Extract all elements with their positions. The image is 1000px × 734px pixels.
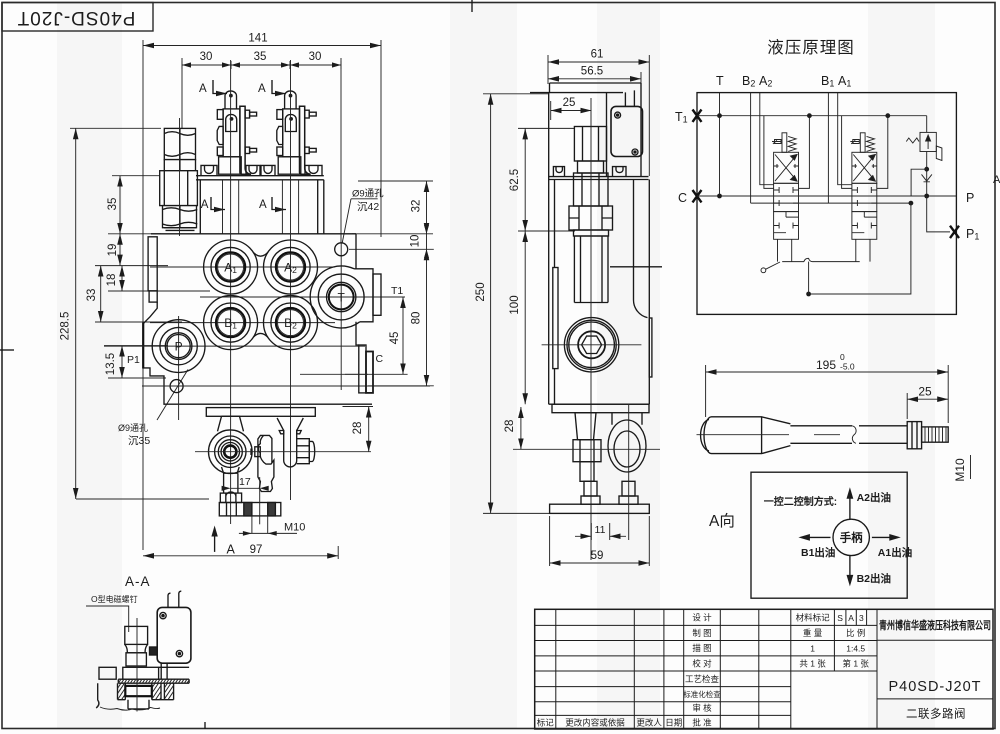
svg-text:56.5: 56.5 bbox=[581, 66, 603, 78]
svg-text:28: 28 bbox=[352, 422, 364, 435]
dimension 28 side bbox=[504, 407, 521, 449]
dimension 32 right bbox=[411, 181, 427, 234]
svg-text:一控二控制方式:: 一控二控制方式: bbox=[764, 495, 837, 508]
svg-text:S: S bbox=[837, 613, 843, 623]
svg-text:33: 33 bbox=[86, 289, 98, 302]
centerline P column bbox=[178, 316, 180, 420]
label M10 leader bbox=[239, 516, 306, 536]
dimension 18 left bbox=[106, 266, 122, 291]
bottom link riser bbox=[808, 262, 810, 294]
svg-text:25: 25 bbox=[918, 385, 932, 399]
valve2 solenoid flag bbox=[853, 140, 860, 144]
svg-text:重 量: 重 量 bbox=[803, 628, 823, 638]
link bolt hex front bbox=[297, 439, 315, 464]
label leader bbox=[86, 606, 129, 632]
junction dot below relief bbox=[924, 167, 929, 172]
svg-text:195: 195 bbox=[816, 358, 836, 372]
side micro switch bbox=[607, 90, 643, 176]
svg-text:青州博信华盛液压科技有限公司: 青州博信华盛液压科技有限公司 bbox=[879, 618, 991, 632]
junction dot secondary rail end bbox=[909, 201, 914, 206]
svg-text:Ø9通孔: Ø9通孔 bbox=[118, 423, 148, 433]
svg-text:59: 59 bbox=[591, 550, 604, 562]
T1 rail bbox=[697, 115, 927, 117]
svg-text:A: A bbox=[993, 174, 1000, 186]
bolt head cup 2 bbox=[246, 165, 260, 175]
section arrow A top right bbox=[258, 80, 286, 95]
svg-text:11: 11 bbox=[595, 524, 606, 536]
valve2 pilot rod bbox=[860, 133, 874, 153]
svg-text:T: T bbox=[716, 74, 724, 88]
side bolt post left bbox=[553, 167, 564, 177]
valve1 right bracket wire bbox=[799, 116, 810, 189]
valve body outline front bbox=[143, 234, 372, 404]
svg-text:P: P bbox=[175, 340, 183, 354]
svg-text:B2出油: B2出油 bbox=[857, 572, 891, 585]
side body top cap bbox=[530, 83, 641, 93]
dimension 28 front bbox=[343, 407, 374, 452]
mounting hole top right bbox=[335, 243, 348, 256]
arrow right bbox=[872, 536, 895, 538]
svg-text:批 准: 批 准 bbox=[692, 718, 712, 728]
svg-text:二联多路阀: 二联多路阀 bbox=[906, 707, 966, 721]
right part vertical rules bbox=[834, 609, 877, 729]
side linkage centerlines bbox=[513, 448, 660, 450]
link clevis fork front bbox=[277, 418, 303, 467]
TITLE BLOCK bbox=[535, 609, 993, 729]
control box frame bbox=[751, 472, 907, 598]
svg-text:100: 100 bbox=[509, 295, 521, 314]
svg-text:液压原理图: 液压原理图 bbox=[767, 38, 855, 57]
svg-text:10: 10 bbox=[410, 235, 422, 248]
side stud left bbox=[581, 481, 600, 504]
dimension 195-5.0 bbox=[706, 352, 949, 423]
svg-text:P40SD-J20T: P40SD-J20T bbox=[17, 7, 136, 28]
svg-text:97: 97 bbox=[250, 544, 263, 556]
section nut bold bbox=[125, 686, 152, 696]
SIDEVIEW bbox=[475, 49, 662, 567]
ball joint clevis front bbox=[209, 416, 253, 473]
svg-text:手柄: 手柄 bbox=[840, 531, 863, 545]
svg-text:设 计: 设 计 bbox=[692, 613, 712, 623]
svg-text:工艺检查: 工艺检查 bbox=[685, 674, 720, 684]
plug X at P1 bbox=[950, 226, 959, 238]
arrow up bbox=[849, 493, 851, 519]
ball joint stem front bbox=[220, 473, 241, 502]
leader hole top Ø9通孔 沉42 bbox=[342, 189, 384, 244]
section lower hatched walls bbox=[118, 683, 174, 700]
linkage pivot centerline bbox=[195, 451, 371, 453]
junction dot bottom bbox=[806, 292, 811, 297]
CONTROLBOX bbox=[709, 472, 912, 598]
relief valve fitting hex stack front bbox=[160, 128, 198, 230]
left raised block bbox=[99, 667, 116, 679]
svg-text:C: C bbox=[376, 353, 384, 365]
svg-text:30: 30 bbox=[309, 51, 322, 63]
dimension 59 bbox=[550, 516, 650, 566]
svg-text:A: A bbox=[201, 199, 209, 211]
bolt head cup 1 bbox=[201, 165, 217, 175]
arrow down bbox=[849, 556, 851, 581]
junction dot T1 valve2 bracket bbox=[885, 113, 890, 118]
mounting hole bottom left bbox=[170, 380, 183, 393]
svg-text:13.5: 13.5 bbox=[105, 353, 117, 375]
svg-text:T: T bbox=[338, 291, 346, 305]
T drop line bbox=[719, 93, 721, 196]
svg-text:228.5: 228.5 bbox=[60, 312, 72, 341]
check valve arrow bbox=[922, 174, 932, 181]
A2 drop line bbox=[760, 93, 774, 185]
section mount plate strip bbox=[118, 679, 189, 683]
valve body caps section front bbox=[200, 180, 323, 234]
C port tab bbox=[356, 322, 373, 393]
dimension 25 side bbox=[551, 97, 592, 120]
valve1 flag lead bbox=[772, 140, 781, 144]
svg-text:制 图: 制 图 bbox=[692, 628, 711, 638]
handle rod bbox=[790, 426, 907, 444]
port A1 rings bbox=[211, 247, 250, 286]
dimension 141 bbox=[143, 33, 381, 551]
bottom fold tick bbox=[204, 722, 206, 729]
handle circle 手柄 bbox=[833, 519, 869, 555]
valve symbol 2 bbox=[852, 152, 877, 239]
svg-text:17: 17 bbox=[239, 476, 251, 488]
side hex fitting stack bbox=[569, 127, 613, 237]
B1 drop line bbox=[827, 93, 829, 204]
svg-text:第 1 张: 第 1 张 bbox=[842, 659, 869, 669]
bolt head cup 4 bbox=[305, 165, 322, 175]
svg-text:35: 35 bbox=[107, 198, 119, 211]
dimension 10 right bbox=[410, 225, 430, 258]
relief valve top wire bbox=[926, 116, 928, 133]
secondary rail bbox=[751, 202, 911, 204]
return drop wire bbox=[809, 203, 911, 294]
svg-text:P40SD-J20T: P40SD-J20T bbox=[888, 679, 981, 695]
left table vertical rules bbox=[556, 609, 791, 729]
svg-text:标准化检查: 标准化检查 bbox=[683, 689, 721, 699]
svg-text:32: 32 bbox=[411, 200, 423, 213]
valve1 pilot rod bbox=[782, 133, 796, 153]
dimension 33 left bbox=[86, 266, 101, 322]
linkage top plate front bbox=[206, 408, 315, 417]
dimension 13.5 left bbox=[105, 346, 122, 378]
mount plate dense hatching bbox=[118, 679, 189, 683]
port P rings bbox=[160, 327, 197, 364]
handle threaded end bbox=[922, 427, 949, 442]
micro switch assembly 1 front bbox=[217, 91, 256, 174]
dimension 25 handle bbox=[907, 385, 948, 420]
svg-text:3: 3 bbox=[859, 613, 864, 623]
centerline T row T1 bbox=[200, 296, 405, 298]
svg-text:M10: M10 bbox=[284, 522, 305, 534]
svg-text:28: 28 bbox=[504, 420, 516, 433]
svg-text:沉35: 沉35 bbox=[128, 434, 150, 447]
centerline A row bbox=[150, 266, 335, 268]
svg-text:P1: P1 bbox=[127, 354, 140, 366]
arrow left bbox=[804, 536, 831, 538]
svg-text:A: A bbox=[258, 83, 266, 95]
spool bores vertical lines bbox=[223, 180, 299, 234]
svg-text:比 例: 比 例 bbox=[846, 628, 865, 638]
dimension 228.5 left bbox=[60, 128, 162, 499]
port boss lobe A1 bbox=[204, 240, 258, 294]
valve2 right bracket wire bbox=[877, 116, 888, 189]
FRONTVIEW bbox=[60, 33, 434, 560]
plug X at T1 bbox=[693, 110, 702, 122]
svg-text:审 核: 审 核 bbox=[692, 703, 712, 713]
svg-text:标记: 标记 bbox=[537, 718, 555, 728]
svg-text:30: 30 bbox=[200, 51, 213, 63]
side left clevis bbox=[573, 413, 601, 482]
micro switch assembly 2 front bbox=[277, 91, 316, 174]
handle nut bbox=[907, 422, 921, 449]
svg-text:141: 141 bbox=[248, 33, 267, 45]
svg-text:A2出油: A2出油 bbox=[857, 491, 891, 504]
svg-text:25: 25 bbox=[563, 97, 576, 109]
svg-text:材料标记: 材料标记 bbox=[796, 613, 831, 623]
dimension 30-35-30 bbox=[182, 51, 341, 243]
svg-text:250: 250 bbox=[475, 282, 487, 301]
side linkage top plate bbox=[552, 404, 649, 413]
svg-text:A: A bbox=[259, 199, 267, 211]
valve2 bottom stubs bbox=[856, 239, 870, 261]
section break lines bottom bbox=[96, 700, 160, 710]
C rail bbox=[697, 195, 956, 197]
lever symbol bbox=[761, 262, 780, 273]
svg-text:1:4.5: 1:4.5 bbox=[846, 644, 865, 654]
dimension 61 bbox=[548, 49, 649, 177]
section centerline bbox=[136, 618, 138, 712]
top center fold tick bbox=[471, 0, 473, 12]
section arrow A mid right bbox=[259, 197, 286, 211]
centerline B row bbox=[150, 322, 335, 324]
port T rings bbox=[318, 274, 364, 320]
port A2 rings bbox=[271, 247, 310, 286]
top-left part number box bbox=[2, 3, 153, 32]
relief valve box bbox=[906, 132, 942, 160]
svg-text:A: A bbox=[199, 83, 207, 95]
P1 branch wire bbox=[927, 196, 950, 232]
A1 drop line bbox=[838, 93, 852, 185]
centerline A2 column bbox=[290, 60, 292, 500]
side slot front bbox=[148, 237, 157, 302]
side bonnet plate bbox=[549, 177, 649, 180]
svg-text:更改内容或依据: 更改内容或依据 bbox=[565, 718, 625, 728]
stud centerline bbox=[259, 477, 261, 524]
side spool centerline bbox=[590, 98, 592, 560]
relief fitting centerline bbox=[179, 118, 181, 236]
svg-text:A向: A向 bbox=[709, 512, 735, 530]
bypass L wire bbox=[911, 169, 927, 196]
switch leg bbox=[161, 663, 167, 679]
svg-text:61: 61 bbox=[591, 49, 604, 61]
dimension 17 bbox=[222, 476, 269, 491]
svg-text:共 1 张: 共 1 张 bbox=[799, 659, 826, 669]
svg-text:A: A bbox=[848, 613, 854, 623]
bottom stud row front bbox=[219, 503, 280, 516]
right dimension extension lines bbox=[345, 181, 434, 386]
left lower block with break bbox=[96, 683, 117, 708]
svg-text:62.5: 62.5 bbox=[509, 169, 521, 191]
bonnet plate front bbox=[196, 176, 324, 180]
hole bottom centerline bbox=[142, 385, 430, 387]
svg-text:校 对: 校 对 bbox=[692, 659, 712, 669]
svg-text:35: 35 bbox=[254, 51, 267, 63]
junction dot T-T1 bbox=[717, 113, 722, 118]
section arrow A mid left bbox=[201, 197, 225, 211]
body bottom left boss bold edge bbox=[142, 323, 144, 369]
svg-text:80: 80 bbox=[411, 312, 423, 325]
svg-text:T1: T1 bbox=[391, 285, 403, 297]
svg-text:Ø9通孔: Ø9通孔 bbox=[352, 189, 384, 200]
dimension 62.5 bbox=[509, 128, 575, 231]
dimension 56.5 bbox=[548, 66, 641, 105]
dimension 35 left bbox=[107, 176, 120, 234]
relief valve bottom wire bbox=[926, 152, 928, 197]
svg-text:C: C bbox=[678, 191, 687, 205]
valve1 solenoid flag bbox=[775, 140, 782, 144]
right part extra rules bbox=[877, 640, 993, 699]
svg-text:M10: M10 bbox=[953, 458, 967, 482]
valve symbol 1 bbox=[774, 152, 799, 239]
dimension 11 bbox=[575, 523, 626, 540]
svg-text:描 图: 描 图 bbox=[692, 643, 711, 653]
wire break squiggle bbox=[804, 258, 813, 261]
bolt head cup 3 bbox=[261, 165, 275, 175]
second linkage arm front bbox=[251, 435, 274, 491]
port boss lobe B1 bbox=[204, 296, 258, 350]
port B2 rings bbox=[271, 303, 310, 342]
B2 drop line bbox=[750, 93, 752, 204]
SECTIONAA bbox=[86, 574, 191, 712]
port boss lobe A2 bbox=[264, 240, 318, 294]
side bottom plate bbox=[550, 504, 650, 513]
lower wall hatching bbox=[118, 683, 174, 700]
plug X at C bbox=[693, 190, 702, 202]
svg-text:沉42: 沉42 bbox=[357, 200, 379, 213]
port boss lobe B2 bbox=[264, 296, 318, 350]
svg-text:B1出油: B1出油 bbox=[801, 546, 835, 559]
svg-text:O型电磁螺钉: O型电磁螺钉 bbox=[91, 594, 138, 604]
svg-text:A: A bbox=[227, 543, 236, 557]
left center fold tick bbox=[0, 349, 14, 351]
dimension 19 left bbox=[107, 234, 120, 266]
dimension 100 bbox=[509, 231, 525, 404]
HANDLE bbox=[697, 352, 971, 482]
side ball end link bbox=[608, 413, 646, 472]
svg-text:45: 45 bbox=[389, 332, 401, 345]
svg-text:1: 1 bbox=[810, 644, 815, 654]
junction dot P line bbox=[924, 194, 929, 199]
dimension 250 bbox=[475, 94, 549, 514]
side port circle set bbox=[564, 318, 618, 372]
side stud right bbox=[619, 481, 638, 504]
right plate next to T boss bbox=[373, 274, 381, 315]
svg-text:18: 18 bbox=[106, 274, 118, 287]
centerline T column bbox=[340, 243, 342, 390]
svg-text:A1出油: A1出油 bbox=[878, 546, 912, 559]
left dimension stack extension lines bbox=[76, 176, 210, 499]
svg-text:A-A: A-A bbox=[125, 574, 151, 589]
junction dot T1 right bracket bbox=[807, 113, 812, 118]
port boss lobe P bbox=[152, 320, 205, 373]
valve1 left bracket wire bbox=[764, 116, 774, 189]
clamp plate top line bbox=[159, 666, 190, 668]
SCHEMATIC bbox=[675, 38, 979, 314]
side circle centerlines bbox=[542, 344, 642, 346]
handle grip bbox=[701, 417, 791, 454]
side bolt post right bbox=[613, 167, 627, 177]
view direction arrow A bottom bbox=[211, 526, 235, 557]
nut cavity lines bbox=[128, 700, 149, 709]
svg-text:0: 0 bbox=[840, 352, 845, 362]
valve1 bottom stubs bbox=[778, 239, 792, 261]
valve2 flag lead bbox=[850, 140, 859, 144]
valve bottom connecting wire bbox=[782, 261, 860, 263]
lobe saddle top bbox=[253, 252, 268, 256]
port B1 rings bbox=[211, 303, 250, 342]
svg-text:P: P bbox=[966, 191, 974, 205]
svg-text:-5.0: -5.0 bbox=[840, 362, 855, 372]
centerline A1 column bbox=[230, 60, 232, 524]
port boss lobe T with right pad bbox=[310, 266, 373, 328]
title block outer frame bbox=[535, 609, 993, 729]
valve2 left bracket wire bbox=[842, 116, 852, 189]
ball joint circles front bbox=[215, 436, 246, 467]
dimension 45 right bbox=[389, 297, 403, 374]
junction dot T-C bbox=[717, 194, 722, 199]
svg-text:更改人: 更改人 bbox=[636, 718, 662, 728]
dimension 80 right bbox=[411, 249, 427, 385]
dimension 97 bbox=[143, 544, 338, 559]
rod centerline dashes bbox=[697, 434, 841, 436]
section micro switch bbox=[150, 591, 191, 663]
svg-text:19: 19 bbox=[107, 244, 119, 257]
section plunger bbox=[123, 626, 159, 679]
body inner line y374 bbox=[300, 373, 368, 375]
centerline P row bbox=[104, 345, 365, 347]
svg-text:日期: 日期 bbox=[665, 718, 682, 728]
section arrow A top left bbox=[199, 80, 227, 95]
leader hole bottom Ø9通孔 沉35 bbox=[118, 370, 188, 448]
side body internals bbox=[553, 180, 662, 405]
label M10 rotated bbox=[953, 455, 971, 482]
left table horizontal rules bbox=[535, 625, 877, 715]
side body outline bbox=[549, 83, 650, 404]
lobe saddle bottom bbox=[253, 333, 268, 337]
schematic border bbox=[697, 93, 956, 315]
